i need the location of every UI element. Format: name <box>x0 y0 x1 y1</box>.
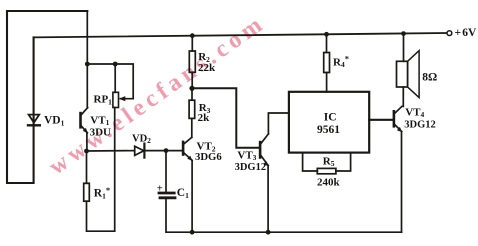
transistor VT2 <box>182 137 193 161</box>
wire speaker top lead <box>403 34 405 62</box>
wire R1 bottom to ground stub <box>87 201 115 231</box>
IC U1 9561 box <box>289 92 369 153</box>
svg-text:3DU: 3DU <box>90 126 111 138</box>
diode VD2 <box>135 144 145 158</box>
svg-text:R4*: R4* <box>333 54 349 70</box>
wire VT1 emitter down <box>86 133 88 151</box>
capacitor C1 <box>157 184 175 198</box>
svg-text:8Ω: 8Ω <box>422 72 437 84</box>
wire VT3 emitter to bottom bus <box>267 166 269 233</box>
diode VD1 <box>28 115 40 126</box>
node speaker bus tap <box>401 31 406 36</box>
wire RP1 bottom lead down to ground stub <box>114 108 116 232</box>
resistor R4* <box>324 53 330 73</box>
speaker LS 8 ohm <box>397 51 420 98</box>
svg-text:RP1: RP1 <box>94 93 113 106</box>
node RP1 top tap <box>113 62 118 67</box>
node C1 tap <box>164 148 169 153</box>
wire node A to VT3 base <box>192 88 259 148</box>
node VT3 emitter ground <box>266 230 271 235</box>
node VT1 collector junction <box>85 62 90 67</box>
wire C1 bottom lead and bottom bus <box>166 199 402 232</box>
wire speaker bottom to VT4 collector <box>402 87 404 106</box>
wire VT2 emitter to bottom bus <box>191 160 193 232</box>
svg-text:VD2: VD2 <box>132 133 151 145</box>
wire R1 top lead <box>86 151 88 183</box>
svg-text:22k: 22k <box>198 62 216 74</box>
wire R2 top lead <box>191 36 193 51</box>
wire IC right pin to VT4 base <box>369 119 392 121</box>
wire VD2 cathode to VT2 base <box>144 150 181 152</box>
wire IC bottom left pin <box>303 153 318 171</box>
transistor VT4 <box>393 106 403 132</box>
resistor R3 <box>189 100 195 118</box>
svg-text:VD1: VD1 <box>44 115 65 128</box>
resistor R2 <box>189 51 195 72</box>
svg-text:9561: 9561 <box>317 124 340 136</box>
transistor VT1 <box>79 108 88 134</box>
node VT2 emitter ground <box>190 230 195 235</box>
svg-text:3DG12: 3DG12 <box>404 120 436 131</box>
wire VT4 emitter to bottom bus <box>401 132 403 233</box>
wire RP1 top lead <box>114 64 116 92</box>
svg-text:+: + <box>157 184 163 195</box>
svg-text:2k: 2k <box>198 112 211 124</box>
wire R4 bottom to IC top pin <box>326 73 328 92</box>
resistor R1* <box>84 183 90 201</box>
svg-text:+6V: +6V <box>455 27 477 39</box>
wire left enclosure loop <box>7 11 87 183</box>
transistor VT3 <box>259 134 269 166</box>
wire emitter node to VD2 anode <box>87 150 135 152</box>
svg-text:VT4: VT4 <box>405 106 424 119</box>
wire VT2 collector to R3 <box>191 118 193 137</box>
wire VT1 collector to top line <box>86 11 88 108</box>
svg-text:240k: 240k <box>317 177 341 189</box>
wire R3 top to node A <box>191 88 193 100</box>
terminal +6V <box>447 31 452 36</box>
node R2 bus tap <box>190 33 195 38</box>
wire C1 top lead <box>165 151 167 192</box>
svg-text:VT3: VT3 <box>237 149 256 162</box>
wire VT3 collector to IC pin <box>268 113 289 134</box>
node R4 bus tap <box>324 32 329 37</box>
resistor R5 <box>317 168 336 173</box>
node A junction R2/R3 <box>189 86 194 91</box>
svg-text:3DG6: 3DG6 <box>195 151 222 163</box>
svg-text:R1*: R1* <box>94 185 110 201</box>
svg-text:R5: R5 <box>323 155 335 168</box>
potentiometer RP1 <box>113 92 125 107</box>
wire top +6V bus <box>34 33 447 37</box>
wire R2 bottom lead <box>191 72 193 88</box>
wire R4 top lead <box>326 34 328 52</box>
wire IC bottom right pin <box>336 153 351 171</box>
svg-text:C1: C1 <box>177 187 189 200</box>
node emitter/R1/VD2 junction <box>84 149 89 154</box>
svg-text:IC: IC <box>324 111 337 123</box>
svg-text:3DG12: 3DG12 <box>235 162 267 173</box>
wire collector node to RP1 top and wiper loop <box>87 64 133 99</box>
